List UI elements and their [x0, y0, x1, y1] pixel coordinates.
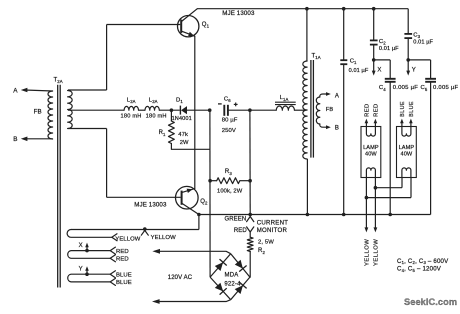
wire T1A FB lead B — [320, 124, 327, 127]
wire bus to yellow winding — [198, 215, 200, 230]
svg-text:T2A: T2A — [54, 78, 63, 85]
transistor Q2 top lead — [182, 189, 195, 193]
wire C6 plus to L1A — [228, 109, 276, 111]
wire T2A secondary top vertical — [106, 25, 108, 91]
svg-text:FB: FB — [34, 109, 42, 116]
svg-text:0.01 µF: 0.01 µF — [379, 46, 399, 52]
terminal arrow yellow lead 1 — [365, 227, 369, 232]
inductor L1A core bars — [275, 101, 296, 103]
wire R1 bottom to B- line — [171, 148, 210, 150]
svg-text:C2: C2 — [379, 39, 386, 46]
svg-text:250V: 250V — [222, 128, 236, 134]
svg-text:B: B — [335, 126, 339, 132]
node R3 right junction — [248, 179, 252, 183]
transformer T2A core — [57, 85, 59, 288]
svg-text:C5: C5 — [421, 85, 428, 92]
lamp 2 top filament — [402, 127, 411, 137]
svg-text:80 µF: 80 µF — [222, 118, 238, 124]
svg-text:X: X — [377, 68, 381, 74]
wire L1A to T1A — [294, 109, 305, 111]
capacitor C4 wire bottom — [389, 82, 391, 215]
wire Q1 base horizontal — [107, 24, 181, 26]
transistor Q2 base wire — [107, 196, 181, 198]
terminal arrow AC bottom — [152, 299, 160, 304]
svg-text:47k: 47k — [178, 132, 188, 138]
bridge diode D5 (bottom-right) — [235, 285, 243, 294]
lead flare blue top — [110, 271, 115, 278]
wire AC bottom line — [155, 300, 231, 302]
wire between L2A coils — [139, 109, 146, 111]
svg-text:T1A: T1A — [312, 54, 321, 61]
svg-text:A: A — [335, 94, 339, 100]
wire D1 anode — [187, 109, 210, 111]
svg-text:A: A — [13, 87, 18, 94]
lamp 1 bottom filament — [366, 168, 375, 178]
capacitor C1 wire bottom — [343, 64, 345, 214]
svg-text:40W: 40W — [365, 152, 377, 158]
svg-text:C1, C2, C3 – 600V: C1, C2, C3 – 600V — [397, 258, 449, 265]
wire T2A FB top lead A — [25, 89, 53, 92]
wire rail to T1A primary top — [306, 9, 308, 61]
diode D1 cathode bar — [179, 106, 181, 115]
svg-text:L2A: L2A — [149, 98, 158, 105]
transistor Q2 circle — [176, 186, 199, 209]
capacitor C4 plates — [385, 78, 396, 80]
capacitor C5 wire top — [430, 60, 432, 79]
svg-text:C4, C5 – 1200V: C4, C5 – 1200V — [397, 266, 442, 273]
svg-text:Q1: Q1 — [202, 22, 210, 29]
transformer T1A feedback winding FB — [316, 97, 320, 124]
svg-text:CURRENT: CURRENT — [257, 220, 289, 227]
svg-text:Q2: Q2 — [200, 199, 208, 206]
svg-text:BLUE: BLUE — [116, 280, 132, 286]
bridge edge top-right — [231, 254, 250, 277]
capacitor C1 plates — [340, 59, 347, 61]
node rail-C2 junction — [372, 7, 376, 11]
svg-text:RED: RED — [116, 249, 129, 255]
wire C3 node to C5 — [408, 59, 430, 61]
svg-text:2, 5W: 2, 5W — [258, 239, 274, 245]
wire T2A secondary bottom lead — [68, 128, 107, 130]
transformer T1A core — [310, 60, 312, 158]
wire T2A secondary center tap — [68, 109, 124, 111]
node D1/C6 minus junction — [208, 108, 212, 112]
svg-text:B: B — [13, 136, 17, 143]
terminal arrow yellow lead 2 — [374, 227, 378, 232]
diode D1 triangle — [181, 106, 187, 114]
wire T2A secondary top lead — [68, 89, 107, 91]
inductor L2A (first) — [124, 106, 138, 110]
svg-text:Y: Y — [412, 68, 416, 74]
bridge diode D2 (left-top) — [215, 262, 223, 271]
terminal arrow A (T1A) — [326, 92, 331, 96]
svg-text:RED: RED — [364, 103, 370, 117]
node rail-C1 junction — [342, 7, 346, 11]
node bus C1 junction — [342, 213, 346, 217]
lamp 1 top filament — [366, 127, 375, 137]
lead flare red top — [110, 247, 115, 254]
node bus C4 junction — [388, 213, 392, 217]
wire B+ top rail — [197, 8, 408, 10]
lamp 2 top pin leads BLUE — [401, 122, 403, 126]
bridge edge left-top — [210, 254, 231, 277]
terminal arrow B (T1A) — [326, 125, 331, 129]
transistor Q1 emitter arrowhead — [188, 32, 194, 36]
capacitor C2 plates — [370, 39, 378, 41]
svg-text:1N4001: 1N4001 — [172, 116, 192, 122]
svg-text:40W: 40W — [400, 152, 412, 158]
wire T2A FB bottom lead B — [25, 138, 53, 140]
capacitor C6 minus sign — [218, 103, 222, 105]
capacitor C1 wire top — [343, 9, 345, 61]
wire T1A FB lead A — [320, 94, 327, 97]
svg-text:YELLOW: YELLOW — [115, 237, 140, 243]
svg-text:0.005 µF: 0.005 µF — [393, 85, 419, 91]
bridge diode D3 (top-right) — [235, 260, 243, 269]
inductor L1A — [276, 106, 294, 110]
wire lamp1 pin2 to lamp2 pin1 — [375, 187, 402, 189]
svg-text:MONITOR: MONITOR — [257, 227, 288, 234]
transistor Q2 base bar — [181, 191, 183, 205]
capacitor C4 wire top — [389, 60, 391, 79]
svg-text:GREEN: GREEN — [224, 217, 246, 223]
resistor R2 — [249, 233, 251, 238]
svg-text:SeekIC.com: SeekIC.com — [404, 297, 457, 307]
svg-text:BLUE: BLUE — [116, 272, 132, 278]
svg-text:100k, 2W: 100k, 2W — [217, 188, 243, 194]
wire B- vertical (D1 node to bridge) — [209, 110, 211, 277]
svg-text:C4: C4 — [379, 85, 386, 92]
svg-text:X: X — [79, 243, 83, 249]
svg-text:LAMP: LAMP — [363, 145, 379, 151]
transistor Q1 collector lead — [182, 9, 198, 22]
svg-text:RED: RED — [234, 228, 248, 234]
svg-text:MDA: MDA — [225, 272, 239, 278]
svg-text:MJE 13003: MJE 13003 — [134, 201, 167, 208]
svg-text:D1: D1 — [176, 97, 183, 104]
capacitor C2 wire top — [373, 9, 375, 41]
lead yellow crow-foot at junction — [141, 230, 148, 235]
svg-text:180 mH: 180 mH — [121, 114, 142, 120]
svg-text:YELLOW: YELLOW — [365, 239, 371, 266]
capacitor C5 plates — [425, 78, 436, 80]
svg-text:R2: R2 — [258, 248, 265, 255]
svg-text:C3: C3 — [413, 32, 420, 39]
svg-text:RED: RED — [373, 103, 379, 117]
terminal arrow A (T2A) — [21, 88, 28, 93]
capacitor C2 wire bottom — [373, 45, 375, 60]
transformer T2A secondary winding — [68, 91, 73, 129]
bridge edge bottom-right — [231, 277, 250, 300]
lamp 2 bottom filament — [402, 168, 411, 178]
svg-text:YELLOW: YELLOW — [151, 235, 176, 241]
node X tap — [85, 249, 89, 253]
node yellow junction — [143, 227, 147, 231]
tap X arrow — [86, 246, 88, 250]
transistor Q2 top lead arrowhead — [187, 189, 193, 193]
node bus T1A junction — [306, 213, 310, 217]
lamp 2 outline — [397, 127, 417, 178]
lamp 1 outline — [361, 127, 381, 178]
svg-text:L2A: L2A — [127, 98, 136, 105]
svg-text:R1: R1 — [159, 130, 166, 137]
svg-text:120V AC: 120V AC — [168, 275, 193, 281]
tap Y arrow — [86, 270, 88, 274]
wire lamp1 pin1 to lamp2 pin2 — [366, 197, 411, 199]
capacitor C3 wire top — [407, 9, 409, 34]
terminal arrow AC top — [152, 249, 160, 254]
node bus monitor junction — [248, 213, 252, 217]
wire T1A primary bottom to bus — [306, 159, 308, 215]
svg-text:BLUE: BLUE — [400, 101, 406, 117]
winding red hairpin — [68, 251, 110, 259]
transformer T1A primary winding — [303, 61, 307, 159]
capacitor C3 plates — [404, 33, 412, 35]
lead flare yellow — [112, 234, 117, 241]
svg-text:BLUE: BLUE — [409, 101, 415, 117]
node lamp1 pin2 junction — [374, 186, 378, 190]
inductor L2A (second) — [145, 106, 159, 110]
node R3 left junction — [208, 179, 212, 183]
transistor Q2 bottom lead — [182, 203, 199, 214]
capacitor C3 wire bottom — [407, 38, 409, 60]
terminal arrow B (T2A) — [21, 137, 28, 142]
wire C6 plus vertical to bus — [249, 110, 251, 214]
svg-text:MJE 13003: MJE 13003 — [222, 10, 255, 17]
svg-text:L1A: L1A — [280, 95, 289, 102]
svg-text:0.01 µF: 0.01 µF — [413, 40, 433, 46]
node rail-T1A junction — [305, 7, 309, 11]
capacitor C6 left plate — [223, 105, 225, 116]
svg-text:R3: R3 — [225, 169, 232, 176]
capacitor C6 plus sign — [234, 103, 238, 105]
node bus Q2 junction — [197, 213, 201, 217]
wire B+ bottom bus — [199, 214, 431, 216]
lead flare blue bottom — [110, 278, 115, 285]
svg-text:Y: Y — [79, 267, 83, 273]
capacitor C6 right plate — [227, 105, 229, 116]
winding yellow hairpin — [67, 230, 112, 238]
transformer T2A feedback winding FB — [48, 91, 53, 139]
lead X arrow — [373, 60, 375, 72]
resistor R3 — [217, 178, 240, 184]
svg-text:2W: 2W — [180, 140, 189, 146]
lead Y arrow — [407, 60, 409, 72]
svg-text:RED: RED — [116, 257, 129, 263]
lead GREEN arrowhead — [247, 217, 254, 222]
lamp 1 top pin leads RED — [365, 122, 367, 126]
node Y tap — [85, 272, 89, 276]
wire lamp1 pin1 down (yellow lead) — [365, 178, 367, 229]
wire AC top line — [155, 251, 231, 253]
svg-text:C6: C6 — [224, 96, 231, 103]
svg-text:922-4: 922-4 — [224, 282, 241, 288]
svg-text:180 mH: 180 mH — [146, 114, 167, 120]
svg-text:LAMP: LAMP — [399, 145, 415, 151]
wire T2A secondary bottom vertical — [106, 129, 108, 198]
wire L2A to R1 node — [159, 109, 180, 111]
bridge diode D4 (left-bottom) — [215, 283, 223, 292]
svg-text:0.01 µF: 0.01 µF — [349, 68, 369, 74]
transistor Q1 circle — [178, 16, 199, 37]
transistor Q1 emitter lead — [182, 31, 195, 36]
node C6/R3 junction — [248, 108, 252, 112]
svg-text:0.005 µF: 0.005 µF — [433, 85, 459, 91]
resistor R1 — [170, 110, 172, 121]
lead flare red bottom — [110, 255, 115, 262]
node L2A/R1 junction — [170, 108, 174, 112]
winding blue hairpin — [68, 274, 110, 282]
svg-text:FB: FB — [326, 107, 334, 113]
transistor Q1 base bar — [180, 20, 182, 33]
bridge edge left-bottom — [210, 277, 231, 300]
wire C2 node to C4 — [374, 59, 391, 61]
lead RED arrowhead — [247, 227, 254, 232]
svg-text:C1: C1 — [350, 59, 357, 66]
node C2 bottom junction — [372, 58, 376, 62]
svg-text:YELLOW: YELLOW — [374, 239, 380, 266]
wire Q1 emitter to Q2 vertical — [194, 36, 196, 188]
wire lamp1 pin2 down (yellow lead) — [374, 178, 376, 229]
node lamp1 pin1 junction — [365, 196, 369, 200]
node C3 bottom junction — [406, 58, 410, 62]
capacitor C5 wire bottom — [430, 82, 432, 215]
